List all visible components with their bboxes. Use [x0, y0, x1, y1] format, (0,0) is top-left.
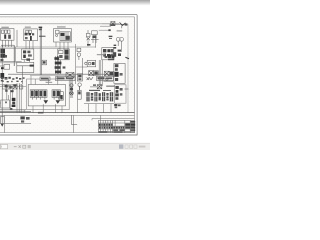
orifice squiggle O1 [115, 23, 128, 29]
drop wire W21 [100, 115, 102, 120]
label text above G2 [117, 30, 123, 31]
tank triangle TT2 [56, 100, 61, 104]
wire risers left W12 [7, 83, 24, 113]
title block text cells [99, 121, 135, 133]
main bus line W15 [0, 112, 135, 114]
pipe line W13 [0, 109, 26, 111]
drop wire W19 [72, 115, 74, 132]
status dash icon [14, 145, 17, 148]
status right icon 4 [134, 145, 137, 148]
top shadow gradient [0, 0, 150, 6]
note text row T2a [110, 24, 116, 25]
bus wire W2 [0, 46, 96, 48]
jumper wire W1b [39, 35, 46, 37]
title block left rise [91, 118, 93, 120]
label box LB2 [56, 77, 76, 81]
filter F1 marks [113, 45, 121, 57]
manifold block MB1 [28, 85, 65, 106]
cross fitting X1 [87, 77, 90, 80]
status icon doc [28, 145, 31, 148]
fitting cluster FC1 [5, 84, 17, 92]
valve block V1 [0, 29, 14, 46]
bus wire W3 [0, 48, 60, 50]
label text above V1 [1, 27, 8, 28]
label text above V2 [25, 27, 31, 28]
status right label [139, 146, 146, 148]
connector line CL2 [76, 66, 87, 68]
riser wire W23 [82, 58, 84, 74]
sheet frame outer bottom border [0, 134, 137, 136]
status right icon 3 [130, 145, 133, 148]
check valve chain CH1 [70, 79, 74, 98]
wire W8 [22, 66, 24, 84]
wire V2 pins down [26, 41, 33, 49]
stack lower box VS2 [115, 85, 126, 103]
header wire W7 [0, 62, 17, 64]
riser wire W18 [3, 115, 5, 132]
title block outer line [92, 117, 135, 119]
reservoir box R1 [0, 64, 10, 69]
stack tick mark [125, 88, 129, 90]
branch wire W5 [13, 45, 15, 66]
piping texture row PT1 [1, 77, 25, 83]
wire V1 pins down [3, 40, 12, 47]
label box LB3 [97, 76, 114, 80]
sheet frame inner top border [0, 16, 135, 18]
strainer cluster S2 [10, 98, 16, 110]
wire right of V1 [16, 30, 18, 47]
directional valve DV1 [89, 71, 99, 80]
dense valve group V7 [105, 55, 115, 60]
small valve SV3 [13, 85, 17, 89]
status right icon selected [119, 144, 123, 148]
status caret mark [0, 146, 3, 148]
schematic right border line [127, 24, 129, 113]
pressure switch PS1 [77, 48, 81, 60]
label text above V6 [97, 54, 105, 55]
pump stack P1 [54, 56, 65, 74]
main bus line W16 [0, 114, 135, 116]
valve block V3 [54, 29, 72, 42]
wire V3 pins down [56, 42, 68, 50]
page background [0, 0, 150, 150]
return line W9 [8, 73, 114, 75]
solenoid valve V5 [91, 31, 99, 43]
pipe line W14 [0, 110, 31, 112]
riser wire W22 [75, 44, 77, 84]
small comps on drain line CL1 [20, 116, 29, 122]
title block T1 [98, 120, 134, 132]
branch wire W5b [15, 47, 17, 61]
schematic top border line [0, 23, 102, 25]
group frame GF1 [27, 79, 70, 110]
drain line W17 [0, 122, 31, 124]
valve stack box VS1 [114, 63, 125, 83]
corner wire W20 [72, 115, 78, 124]
valve pin stubs [32, 97, 58, 99]
status icon grid [23, 145, 26, 148]
status right icon 2 [125, 145, 128, 148]
label text above V3 [57, 26, 66, 27]
manifold drain wires W25 [33, 99, 111, 113]
control box C1 [85, 60, 96, 66]
sheet frame inner right border [134, 17, 136, 133]
pilot valve V4 [86, 30, 90, 46]
accumulator A1 [0, 49, 7, 62]
motor M2 [42, 60, 47, 65]
note leader line N1 [102, 23, 119, 25]
gauge pair G2 [116, 37, 123, 52]
text row T4 [103, 81, 113, 82]
stack outlet cluster VS3 [114, 104, 120, 108]
check valve CV1 [111, 22, 115, 26]
label box LB1 [40, 77, 50, 81]
feed wire W26 [95, 38, 97, 48]
sheet frame outer right border [136, 15, 138, 136]
valve bank V6 [102, 48, 114, 60]
label text above MB1 [46, 82, 53, 83]
directional valve DV2 [104, 71, 113, 81]
valve box VB1 [0, 117, 4, 124]
motor-pump group MP1 [78, 86, 82, 99]
status bar [0, 143, 150, 150]
small valve SV4 [20, 85, 23, 89]
tank box TK1 [17, 58, 34, 72]
label text T3 [96, 54, 98, 56]
text row T5 [106, 86, 114, 87]
note text row T2b [108, 29, 110, 31]
wire risers W11 [99, 60, 102, 86]
manifold pins W5c [24, 60, 29, 63]
valve block V2 [24, 29, 38, 41]
pump row PR1 [84, 90, 114, 104]
strainer S1 dark cluster [0, 67, 7, 81]
small valve SV1 [2, 85, 6, 89]
heat exchanger HX1 [66, 72, 74, 77]
cylinder block CYL1 [58, 49, 69, 60]
status icon chevron [19, 145, 21, 147]
manifold M1 [22, 49, 34, 60]
tank triangle TT1 [44, 100, 49, 104]
manifold feed wires W24 [31, 76, 58, 85]
relief valve RV1 squiggle [125, 57, 129, 59]
filter unit F2 [77, 74, 82, 91]
arrow terminal AT1 [1, 124, 4, 127]
note leader line N2a [100, 25, 111, 27]
sheet frame inner bottom border [0, 132, 135, 134]
return line W10 [30, 75, 76, 77]
node label NL1 [39, 27, 43, 31]
tank unit TK2 [0, 100, 10, 108]
status input box [0, 144, 7, 148]
sheet interior wash [0, 17, 135, 133]
sheet frame outer top border [0, 14, 137, 16]
gauge G1 marks [109, 36, 113, 39]
valve unit V8 [90, 84, 102, 88]
supply wire pair W1 [39, 28, 41, 75]
header wire W6 [0, 60, 22, 62]
junction wires W12b [0, 85, 26, 87]
small valve SV2 [8, 85, 11, 89]
bus tap segment BT1 [38, 112, 44, 114]
note leader line N2b [99, 29, 109, 31]
valve cell row inside MB1 [30, 90, 34, 98]
